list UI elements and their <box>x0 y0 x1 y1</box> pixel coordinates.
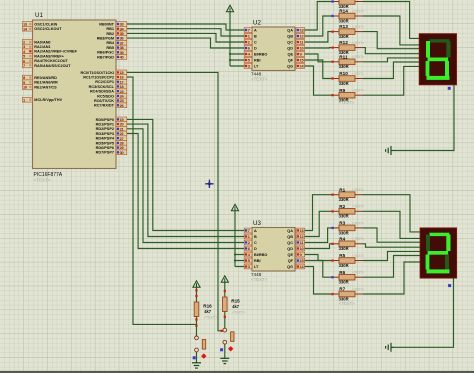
svg-text:40: 40 <box>120 55 124 60</box>
svg-text:RA1/AN1: RA1/AN1 <box>34 45 50 49</box>
svg-text:RD1/PSP1: RD1/PSP1 <box>96 123 114 127</box>
U1 pin 27 RD4/PSP4 <box>96 136 127 141</box>
U1 pin 36 RB3/PGM <box>97 36 127 41</box>
svg-text:R4: R4 <box>339 236 345 241</box>
U1 pin 8 RE0/AN5/RD <box>22 75 57 80</box>
resistor R2 330R <box>331 204 364 219</box>
svg-text:RD3/PSP3: RD3/PSP3 <box>96 132 114 136</box>
svg-text:10: 10 <box>300 246 304 251</box>
U1 pin 22 RD3/PSP3 <box>96 131 127 136</box>
wire R3 to display2 segment f <box>363 228 420 242</box>
svg-text:QD: QD <box>287 247 293 251</box>
wire RB0 to U2 A <box>127 24 244 30</box>
svg-text:<TEXT>: <TEXT> <box>34 178 51 183</box>
svg-text:RD5/PSP5: RD5/PSP5 <box>96 141 114 145</box>
U3 pin 13 QA <box>287 228 304 233</box>
wire U3 QA to R1 <box>305 195 331 231</box>
ground for bottom display <box>386 343 394 352</box>
push button 1 <box>195 336 207 359</box>
U2 pin 5 RBI <box>244 58 260 63</box>
svg-text:QD: QD <box>287 46 293 50</box>
svg-text:330R: 330R <box>339 230 349 235</box>
svg-text:BI/RBO: BI/RBO <box>254 253 267 257</box>
svg-text:<TEXT>: <TEXT> <box>352 72 364 76</box>
U1 pin 40 RB7/PGD <box>97 55 127 60</box>
push button 2 <box>223 328 234 351</box>
U1 pin 6 RA4/T0CKI/C1OUT <box>22 58 68 63</box>
svg-text:10: 10 <box>300 46 304 51</box>
svg-text:QC: QC <box>287 241 293 245</box>
svg-text:U2: U2 <box>253 20 261 27</box>
svg-text:RC6/TX/CK: RC6/TX/CK <box>94 99 114 103</box>
svg-text:RD0/PSP0: RD0/PSP0 <box>96 118 114 122</box>
7-segment display DS2 showing digit 2 <box>420 228 457 278</box>
svg-text:QF: QF <box>288 259 294 263</box>
resistor R14 330R <box>331 9 364 24</box>
svg-text:7: 7 <box>248 228 250 233</box>
svg-text:R13: R13 <box>339 24 348 29</box>
wire R9 to display segment c <box>363 66 419 95</box>
svg-text:RC5/SDO: RC5/SDO <box>97 94 114 98</box>
svg-text:330R: 330R <box>339 81 349 86</box>
wire top display common to ground <box>394 85 454 151</box>
svg-text:LT: LT <box>254 265 259 269</box>
U1 pin 9 RE1/AN6/WR <box>22 80 58 85</box>
svg-text:C: C <box>254 40 257 44</box>
U1 pin 30 RD7/PSP7 <box>96 150 127 155</box>
svg-text:R7: R7 <box>339 287 345 292</box>
svg-text:R16: R16 <box>203 304 212 309</box>
svg-text:RBI: RBI <box>254 259 261 263</box>
U1 pin 2 RA0/AN0 <box>22 40 50 45</box>
svg-text:R12: R12 <box>339 40 348 45</box>
wire U3 QE to R5 <box>305 255 331 261</box>
U1 reference label <box>35 12 43 19</box>
resistor (top, label off-screen) 330R <box>331 0 363 9</box>
svg-text:7: 7 <box>248 28 250 33</box>
U1 pin 3 RA1/AN1 <box>22 44 50 49</box>
svg-text:RC1/T1OSI/CCP2: RC1/T1OSI/CCP2 <box>83 76 114 80</box>
U3 reference label <box>253 220 261 227</box>
resistor R7 330R <box>331 287 364 302</box>
svg-text:R10: R10 <box>339 71 348 76</box>
svg-text:330R: 330R <box>339 280 349 285</box>
svg-text:BI/RBO: BI/RBO <box>254 52 267 56</box>
wire +5V to U3 LT/RBI/BI <box>235 211 244 267</box>
wire RC1 to button 1 node <box>127 77 196 324</box>
U3 value label 7448 <box>251 272 268 282</box>
svg-text:QB: QB <box>287 235 293 239</box>
svg-text:R15: R15 <box>231 299 240 304</box>
U2 pin 12 QB <box>287 34 304 39</box>
wire RD2 to U3 C <box>127 129 244 243</box>
wire R14 to display segment b <box>363 16 419 45</box>
svg-text:RC3/SCK/SCL: RC3/SCK/SCL <box>89 85 115 89</box>
wire R16 to button 1 <box>196 317 198 337</box>
svg-text:RE0/AN5/RD: RE0/AN5/RD <box>34 76 57 80</box>
blue origin cross marker <box>205 180 213 188</box>
svg-text:<TEXT>: <TEXT> <box>251 277 268 282</box>
wire R4 to display2 segment g <box>363 244 420 247</box>
svg-text:RB1: RB1 <box>106 27 114 31</box>
state squares on R15 bottom wire <box>220 316 226 332</box>
svg-text:D: D <box>254 46 257 50</box>
state square at button 1 ground side <box>193 356 196 359</box>
wire U2 QB to R14 <box>305 16 331 36</box>
svg-text:RA3/AN3/VREF+: RA3/AN3/VREF+ <box>34 54 64 58</box>
svg-text:B: B <box>254 235 257 239</box>
svg-text:RD7/PSP7: RD7/PSP7 <box>96 151 114 155</box>
svg-text:RD6/PSP6: RD6/PSP6 <box>96 146 114 150</box>
U1 pin 1 MCLR/Vpp/THV <box>22 97 62 102</box>
U1 pin 10 RE2/AN7/CS <box>22 85 57 90</box>
wire U3 QD to R4 <box>305 244 331 249</box>
wire button 1 to ground <box>196 352 198 362</box>
microcontroller U1 PIC16F877A body <box>33 20 117 169</box>
svg-text:<TEXT>: <TEXT> <box>352 188 364 192</box>
svg-text:<TEXT>: <TEXT> <box>251 77 268 82</box>
svg-text:10: 10 <box>23 85 27 90</box>
wire R12 to display segment g <box>363 48 419 54</box>
svg-text:R3: R3 <box>339 221 345 226</box>
svg-text:LT: LT <box>254 64 259 68</box>
logic state square at bottom display common <box>448 284 451 287</box>
svg-text:330R: 330R <box>339 197 349 202</box>
svg-text:RC4/SDI/SDA: RC4/SDI/SDA <box>90 90 114 94</box>
wire U2 QD to R12 <box>305 47 331 49</box>
svg-text:<TEXT>: <TEXT> <box>352 287 364 291</box>
svg-text:RE2/AN7/CS: RE2/AN7/CS <box>34 85 57 89</box>
svg-text:4k7: 4k7 <box>204 309 212 314</box>
svg-text:U1: U1 <box>35 12 43 19</box>
U1 pin 19 RD0/PSP0 <box>96 117 127 122</box>
U3 pin 6 D <box>244 246 257 251</box>
svg-text:A: A <box>254 28 257 32</box>
wire RC0 to button 2 node <box>127 72 223 330</box>
svg-text:4k7: 4k7 <box>232 304 240 309</box>
wire RB3 to U2 D <box>127 38 244 48</box>
U2 pin 14 QG <box>287 64 305 69</box>
svg-text:MCLR/Vpp/THV: MCLR/Vpp/THV <box>34 98 62 102</box>
svg-text:OSC2/CLKOUT: OSC2/CLKOUT <box>34 27 62 31</box>
U2 pin 15 QF <box>288 58 305 63</box>
svg-text:<TEXT>: <TEXT> <box>352 205 364 209</box>
svg-text:330R: 330R <box>339 263 349 268</box>
U1 pin 23 RC4/SDI/SDA <box>90 89 127 94</box>
resistor R13 330R <box>331 24 364 39</box>
svg-text:QA: QA <box>287 229 293 233</box>
U1 pin 13 OSC1/CLKIN <box>22 22 57 27</box>
svg-text:RB3/PGM: RB3/PGM <box>97 37 114 41</box>
U2 pin 10 QD <box>287 46 304 51</box>
wire R5 to display2 segment e <box>363 251 420 260</box>
svg-text:RB7/PGD: RB7/PGD <box>97 55 114 59</box>
wire U2 QC to R13 <box>305 32 331 42</box>
power +5V above R16 <box>193 281 200 288</box>
svg-text:<TEXT>: <TEXT> <box>352 254 364 258</box>
logic state square at top display common <box>448 87 451 90</box>
U1 pin 25 RC6/TX/CK <box>94 98 127 103</box>
U1 pin 37 RB4 <box>106 40 126 45</box>
svg-text:R9: R9 <box>339 88 345 93</box>
svg-text:U3: U3 <box>253 220 261 227</box>
svg-text:RC0/T1OSO/T1CKI: RC0/T1OSO/T1CKI <box>80 71 114 75</box>
svg-text:330R: 330R <box>339 34 349 39</box>
U1 pin 14 OSC2/CLKOUT <box>22 26 62 31</box>
resistor R10 330R <box>331 71 364 86</box>
svg-text:<TEXT>: <TEXT> <box>352 237 364 241</box>
U2 pin 6 D <box>244 46 257 51</box>
svg-text:RE1/AN6/WR: RE1/AN6/WR <box>34 81 58 85</box>
7-segment display DS1 showing digit 6 <box>419 34 456 85</box>
svg-text:RA4/T0CKI/C1OUT: RA4/T0CKI/C1OUT <box>34 59 68 63</box>
U3 pin 5 RBI <box>244 258 260 263</box>
svg-text:QB: QB <box>287 34 293 38</box>
svg-text:RB5: RB5 <box>106 46 114 50</box>
U2 pin 3 LT <box>244 64 259 69</box>
svg-text:OSC1/CLKIN: OSC1/CLKIN <box>34 22 57 26</box>
wire R13 to display segment f <box>363 32 419 49</box>
U1 pin 18 RC3/SCK/SCL <box>89 84 127 89</box>
U1 value label PIC16F877A <box>34 172 63 183</box>
U1 pin 29 RD6/PSP6 <box>96 145 127 150</box>
U1 pin 20 RD1/PSP1 <box>96 122 127 127</box>
U1 pin 24 RC5/SDO <box>97 94 127 99</box>
wire R15 to button 2 <box>224 312 226 329</box>
state squares on R16 top wire <box>195 289 197 297</box>
svg-text:RB6/PGC: RB6/PGC <box>97 51 114 55</box>
junction dots on U2 +5V rail <box>229 53 231 61</box>
resistor R15 4k7 (vertical) <box>223 297 246 315</box>
svg-text:30: 30 <box>120 150 124 155</box>
wire R1 to display2 segment a <box>363 195 420 232</box>
state squares on R16 bottom wire <box>195 318 197 326</box>
svg-text:RA2/AN2/VREF-/CVREF: RA2/AN2/VREF-/CVREF <box>34 50 77 54</box>
resistor R1 330R <box>331 187 364 202</box>
wire R11 to display segment e <box>363 58 419 62</box>
resistor R4 330R <box>331 236 364 251</box>
svg-text:QF: QF <box>288 58 294 62</box>
U1 pin 26 RC7/RX/DT <box>94 103 127 108</box>
U2 pin 13 QA <box>287 28 304 33</box>
wire U3 QG to R7 <box>305 267 331 295</box>
svg-text:<TEXT>: <TEXT> <box>352 55 364 59</box>
U1 pin 28 RD5/PSP5 <box>96 141 127 146</box>
svg-text:RB2: RB2 <box>106 32 114 36</box>
U3 pin 9 QE <box>288 252 305 257</box>
svg-text:QE: QE <box>288 253 294 257</box>
wire U2 QA to top resistor 1 <box>305 2 331 31</box>
U1 pin 38 RB5 <box>106 45 126 50</box>
svg-text:R5: R5 <box>339 253 345 258</box>
wire RD0 to U3 A <box>127 119 244 230</box>
U3 pin 7 A <box>244 228 257 233</box>
U3 pin 10 QD <box>287 246 304 251</box>
U2 pin 4 BI/RBO <box>244 52 267 57</box>
wire +5V to U2 LT/RBI/BI <box>230 12 244 66</box>
svg-text:330R: 330R <box>339 18 349 23</box>
resistor R11 330R <box>331 54 364 69</box>
U1 pin 4 RA2/AN2/VREF-/CVREF <box>22 49 77 54</box>
svg-text:330R: 330R <box>339 64 349 69</box>
decoder U3 7448 body <box>252 228 295 272</box>
U1 pin 5 RA3/AN3/VREF+ <box>22 54 64 59</box>
svg-text:RC7/RX/DT: RC7/RX/DT <box>94 104 115 108</box>
U2 pin 1 B <box>244 34 257 39</box>
U2 value label 7448 <box>251 72 268 82</box>
wire +5V to R15 <box>224 282 226 297</box>
U1 pin 39 RB6/PGC <box>97 50 127 55</box>
power +5V above R15 <box>221 276 228 283</box>
wire R6 to display2 segment d <box>363 256 420 278</box>
svg-text:RBI: RBI <box>254 58 261 62</box>
svg-text:<TEXT>: <TEXT> <box>339 100 355 105</box>
U1 pin 21 RD2/PSP2 <box>96 126 127 131</box>
svg-text:<TEXT>: <TEXT> <box>339 301 355 306</box>
resistor R12 330R <box>331 40 364 55</box>
state square on R15 top wire <box>224 290 226 292</box>
grey TEXT note under R7 <box>339 301 355 306</box>
wire RD3 to U3 D <box>127 134 244 249</box>
svg-text:R2: R2 <box>339 204 345 209</box>
wire RB2 to U2 C <box>127 33 244 42</box>
svg-text:RA0/AN0: RA0/AN0 <box>34 40 50 44</box>
U1 pin 34 RB1 <box>106 26 126 31</box>
U1 pin 7 RA5/AN4/SS/C2OUT <box>22 63 71 68</box>
U3 pin 11 QC <box>287 240 304 245</box>
U3 pin 12 QB <box>287 234 304 239</box>
U2 pin 7 A <box>244 28 257 33</box>
wire R7 to display2 segment c <box>363 262 420 294</box>
U1 pin 16 RC1/T1OSI/CCP2 <box>83 75 127 80</box>
svg-text:<TEXT>: <TEXT> <box>204 316 217 320</box>
U2 pin 2 C <box>244 40 257 45</box>
wire U3 QB to R2 <box>305 211 331 236</box>
wire U3 QF to R6 <box>305 261 331 278</box>
svg-text:QG: QG <box>287 265 293 269</box>
U1 pin 35 RB2 <box>106 31 126 36</box>
junction dots on U3 +5V rail <box>234 253 236 261</box>
U2 pin 11 QC <box>287 40 304 45</box>
resistor R16 4k7 (vertical) <box>194 302 217 320</box>
U3 pin 1 B <box>244 234 257 239</box>
svg-text:7: 7 <box>23 63 25 68</box>
svg-text:R1: R1 <box>339 187 345 192</box>
svg-text:A: A <box>254 229 257 233</box>
svg-text:330R: 330R <box>339 246 349 251</box>
wire U2 QE to R11 <box>305 54 331 62</box>
svg-text:<TEXT>: <TEXT> <box>352 9 364 13</box>
wire U3 QC to R3 <box>305 228 331 243</box>
wire bottom display common to ground <box>394 278 454 347</box>
decoder U2 7448 body <box>252 27 295 71</box>
svg-text:QG: QG <box>287 64 293 68</box>
U3 pin 14 QG <box>287 264 305 269</box>
resistor R5 330R <box>331 253 364 268</box>
wire RB1 to U2 B <box>127 29 244 36</box>
U1 pin 15 RC0/T1OSO/T1CKI <box>80 70 126 75</box>
svg-text:<TEXT>: <TEXT> <box>352 25 364 29</box>
svg-text:R14: R14 <box>339 9 348 14</box>
svg-text:RA5/AN4/SS/C2OUT: RA5/AN4/SS/C2OUT <box>34 64 71 68</box>
grey TEXT note under R9 <box>339 100 355 105</box>
wire U2 QF to R10 <box>305 60 331 79</box>
svg-text:QA: QA <box>287 28 293 32</box>
svg-text:R11: R11 <box>339 54 348 59</box>
svg-text:<TEXT>: <TEXT> <box>352 221 364 225</box>
svg-text:<TEXT>: <TEXT> <box>352 271 364 275</box>
svg-text:B: B <box>254 34 257 38</box>
U1 pin 33 RB0/INT <box>99 22 127 27</box>
svg-text:RD2/PSP2: RD2/PSP2 <box>96 127 114 131</box>
ground under button 2 <box>220 358 229 364</box>
resistor R3 330R <box>331 221 364 236</box>
svg-text:<TEXT>: <TEXT> <box>232 311 245 315</box>
U3 pin 4 BI/RBO <box>244 252 267 257</box>
power +5V for U2 <box>226 5 233 12</box>
power +5V for U3 <box>231 204 238 211</box>
wire RD1 to U3 B <box>127 124 244 236</box>
U3 pin 15 QF <box>288 258 305 263</box>
wire U2 QG to R9 <box>305 66 331 95</box>
svg-text:R6: R6 <box>339 270 345 275</box>
svg-text:330R: 330R <box>339 214 349 219</box>
U2 reference label <box>253 20 261 27</box>
wire top res1 to display segment a <box>363 2 419 39</box>
svg-text:<TEXT>: <TEXT> <box>352 89 364 93</box>
svg-text:RC2/CCP1: RC2/CCP1 <box>95 80 114 84</box>
ground under button 1 <box>192 362 201 368</box>
ground for top display <box>386 146 394 155</box>
wire button 2 to ground <box>224 344 226 357</box>
svg-text:QC: QC <box>287 40 293 44</box>
svg-text:<TEXT>: <TEXT> <box>352 41 364 45</box>
window bottom edge strip <box>0 371 474 373</box>
svg-text:RB4: RB4 <box>106 41 114 45</box>
U2 pin 9 QE <box>288 52 305 57</box>
U1 pin 17 RC2/CCP1 <box>95 79 127 84</box>
state square at button 2 ground side <box>220 348 223 351</box>
resistor R9 330R <box>331 88 364 103</box>
wire +5V to R16 <box>196 287 198 302</box>
U3 pin 3 LT <box>244 264 259 269</box>
svg-text:D: D <box>254 247 257 251</box>
U3 pin 2 C <box>244 240 257 245</box>
svg-text:RB0/INT: RB0/INT <box>99 22 114 26</box>
svg-text:C: C <box>254 241 257 245</box>
svg-text:QE: QE <box>288 52 294 56</box>
wire R2 to display2 segment b <box>363 211 420 238</box>
resistor R6 330R <box>331 270 364 285</box>
svg-text:RD4/PSP4: RD4/PSP4 <box>96 137 115 141</box>
wire R10 to display segment d <box>363 62 419 79</box>
